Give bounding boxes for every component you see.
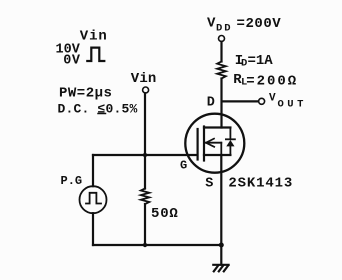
svg-text:G: G (180, 159, 187, 173)
svg-text:D.C. ≤0.5%: D.C. ≤0.5% (58, 102, 138, 117)
svg-text:=200Ω: =200Ω (246, 74, 298, 90)
svg-text:D: D (241, 58, 247, 70)
svg-text:V: V (269, 93, 276, 105)
svg-text:V: V (207, 16, 216, 32)
svg-text:S: S (205, 177, 213, 192)
svg-text:OUT: OUT (278, 99, 307, 111)
svg-text:P.G: P.G (61, 174, 83, 188)
svg-text:=1A: =1A (248, 53, 274, 69)
svg-text:2SK1413: 2SK1413 (228, 176, 293, 192)
svg-text:D: D (207, 96, 215, 111)
svg-text:0V: 0V (63, 54, 81, 69)
svg-text:Vin: Vin (80, 29, 108, 45)
svg-text:=200V: =200V (237, 16, 282, 32)
svg-text:DD: DD (216, 23, 233, 35)
svg-text:PW=2μs: PW=2μs (59, 85, 112, 101)
svg-text:Vin: Vin (131, 71, 157, 87)
svg-text:50Ω: 50Ω (151, 206, 179, 222)
